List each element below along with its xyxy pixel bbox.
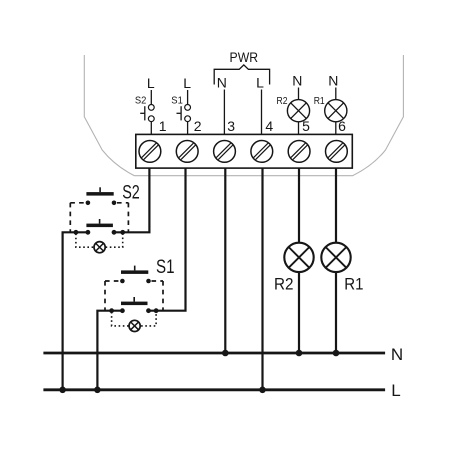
junction S1 wire / L bus bbox=[94, 387, 101, 394]
svg-text:N: N bbox=[328, 73, 338, 89]
svg-text:L: L bbox=[391, 381, 400, 400]
terminal screw 4 bbox=[251, 141, 273, 163]
svg-text:R1: R1 bbox=[344, 275, 363, 293]
wire switch S2 to terminal 1 bbox=[150, 122, 152, 135]
svg-text:4: 4 bbox=[265, 118, 273, 134]
lamp R2 bbox=[284, 243, 313, 272]
terminal screw 1 bbox=[139, 141, 161, 163]
pushbutton S1 upper button bbox=[121, 266, 148, 274]
lamp R2 (top symbol) bbox=[287, 100, 309, 122]
svg-text:L: L bbox=[147, 75, 155, 91]
terminal screw 3 bbox=[214, 141, 236, 163]
svg-text:R2: R2 bbox=[274, 275, 294, 293]
terminal screw 6 bbox=[326, 141, 348, 163]
switch S2 (top contact symbol) bbox=[140, 105, 154, 122]
wire L to switch S2 input bbox=[150, 90, 152, 105]
svg-text:R2: R2 bbox=[277, 95, 288, 107]
pushbutton S1 enclosure (dashed box) bbox=[105, 281, 163, 311]
svg-text:1: 1 bbox=[159, 118, 167, 134]
S2 indicator lamp dotted wiring bbox=[76, 234, 123, 248]
svg-text:PWR: PWR bbox=[230, 49, 259, 65]
switch S1 (top contact symbol) bbox=[177, 105, 191, 122]
wire switch S1 to terminal 2 bbox=[187, 122, 189, 135]
pushbutton S1 upper contacts bbox=[120, 279, 151, 284]
pushbutton S1 lower contacts bbox=[120, 308, 151, 313]
svg-text:5: 5 bbox=[302, 118, 310, 134]
svg-text:N: N bbox=[217, 75, 227, 91]
svg-text:L: L bbox=[183, 75, 191, 91]
svg-text:R1: R1 bbox=[314, 95, 325, 107]
pushbutton S2 upper contacts bbox=[86, 201, 117, 206]
svg-text:S1: S1 bbox=[156, 257, 175, 278]
pushbutton S2 upper button bbox=[86, 187, 113, 195]
junction S1 lamp tap right bbox=[154, 308, 159, 313]
device outline bbox=[84, 55, 403, 176]
terminal block bbox=[136, 134, 352, 168]
junction S2 lamp tap left bbox=[74, 230, 79, 235]
wire L to terminal 4 bbox=[261, 90, 263, 135]
S1 indicator lamp dotted wiring bbox=[112, 312, 157, 326]
junction terminal 3 wire / N bus bbox=[222, 350, 229, 357]
wire terminal 5 to lamp R2 bbox=[298, 168, 300, 243]
pushbutton S2 lower button bbox=[86, 219, 113, 227]
wire lamp R1 to N bus bbox=[335, 272, 337, 353]
junction S1 lamp tap left bbox=[109, 308, 114, 313]
L bus bbox=[43, 388, 385, 391]
wire lamp R2 to N bus bbox=[298, 272, 300, 353]
svg-text:N: N bbox=[292, 73, 302, 89]
svg-text:3: 3 bbox=[227, 118, 235, 134]
terminal screw 2 bbox=[176, 141, 198, 163]
wire lamp R2 to terminal 5 bbox=[298, 122, 300, 135]
wire N to lamp R2 (top symbol) bbox=[298, 88, 300, 100]
wire terminal 2 to pushbutton S1 bbox=[149, 168, 186, 311]
junction S2 lamp tap right bbox=[120, 230, 125, 235]
wire terminal 3 to N bus bbox=[224, 168, 226, 353]
N bus bbox=[43, 352, 385, 355]
wire lamp R1 to terminal 6 bbox=[335, 122, 337, 135]
svg-text:6: 6 bbox=[338, 118, 346, 134]
svg-text:2: 2 bbox=[194, 118, 202, 134]
lamp R1 bbox=[321, 243, 350, 272]
svg-text:S2: S2 bbox=[135, 95, 147, 107]
svg-text:S2: S2 bbox=[122, 182, 140, 203]
pushbutton S1 lower button bbox=[121, 297, 148, 305]
junction lamp R1 wire / N bus bbox=[333, 350, 340, 357]
pushbutton S2 enclosure (dashed box) bbox=[70, 203, 128, 232]
wire terminal 4 to L bus bbox=[261, 168, 263, 390]
wire terminal 1 to pushbutton S2 bbox=[114, 168, 149, 232]
wire L to switch S1 input bbox=[187, 90, 189, 105]
svg-text:S1: S1 bbox=[171, 95, 183, 107]
svg-text:N: N bbox=[391, 345, 403, 364]
svg-text:L: L bbox=[256, 75, 264, 91]
wire N to terminal 3 bbox=[223, 90, 225, 135]
junction S2 wire / L bus bbox=[59, 387, 66, 394]
junction lamp R2 wire / N bus bbox=[296, 350, 303, 357]
wire pushbutton S1 to L bus bbox=[97, 311, 122, 390]
PWR bracket bbox=[214, 65, 269, 85]
pushbutton S2 lower contacts bbox=[86, 230, 117, 235]
S1 indicator lamp bbox=[129, 320, 140, 331]
wire pushbutton S2 to L bus bbox=[63, 232, 88, 389]
S2 indicator lamp bbox=[94, 242, 105, 253]
junction terminal 4 wire / L bus bbox=[259, 387, 266, 394]
terminal screw 5 bbox=[288, 141, 310, 163]
lamp R1 (top symbol) bbox=[325, 100, 347, 122]
wire N to lamp R1 (top symbol) bbox=[335, 88, 337, 100]
wire terminal 6 to lamp R1 bbox=[335, 168, 337, 243]
